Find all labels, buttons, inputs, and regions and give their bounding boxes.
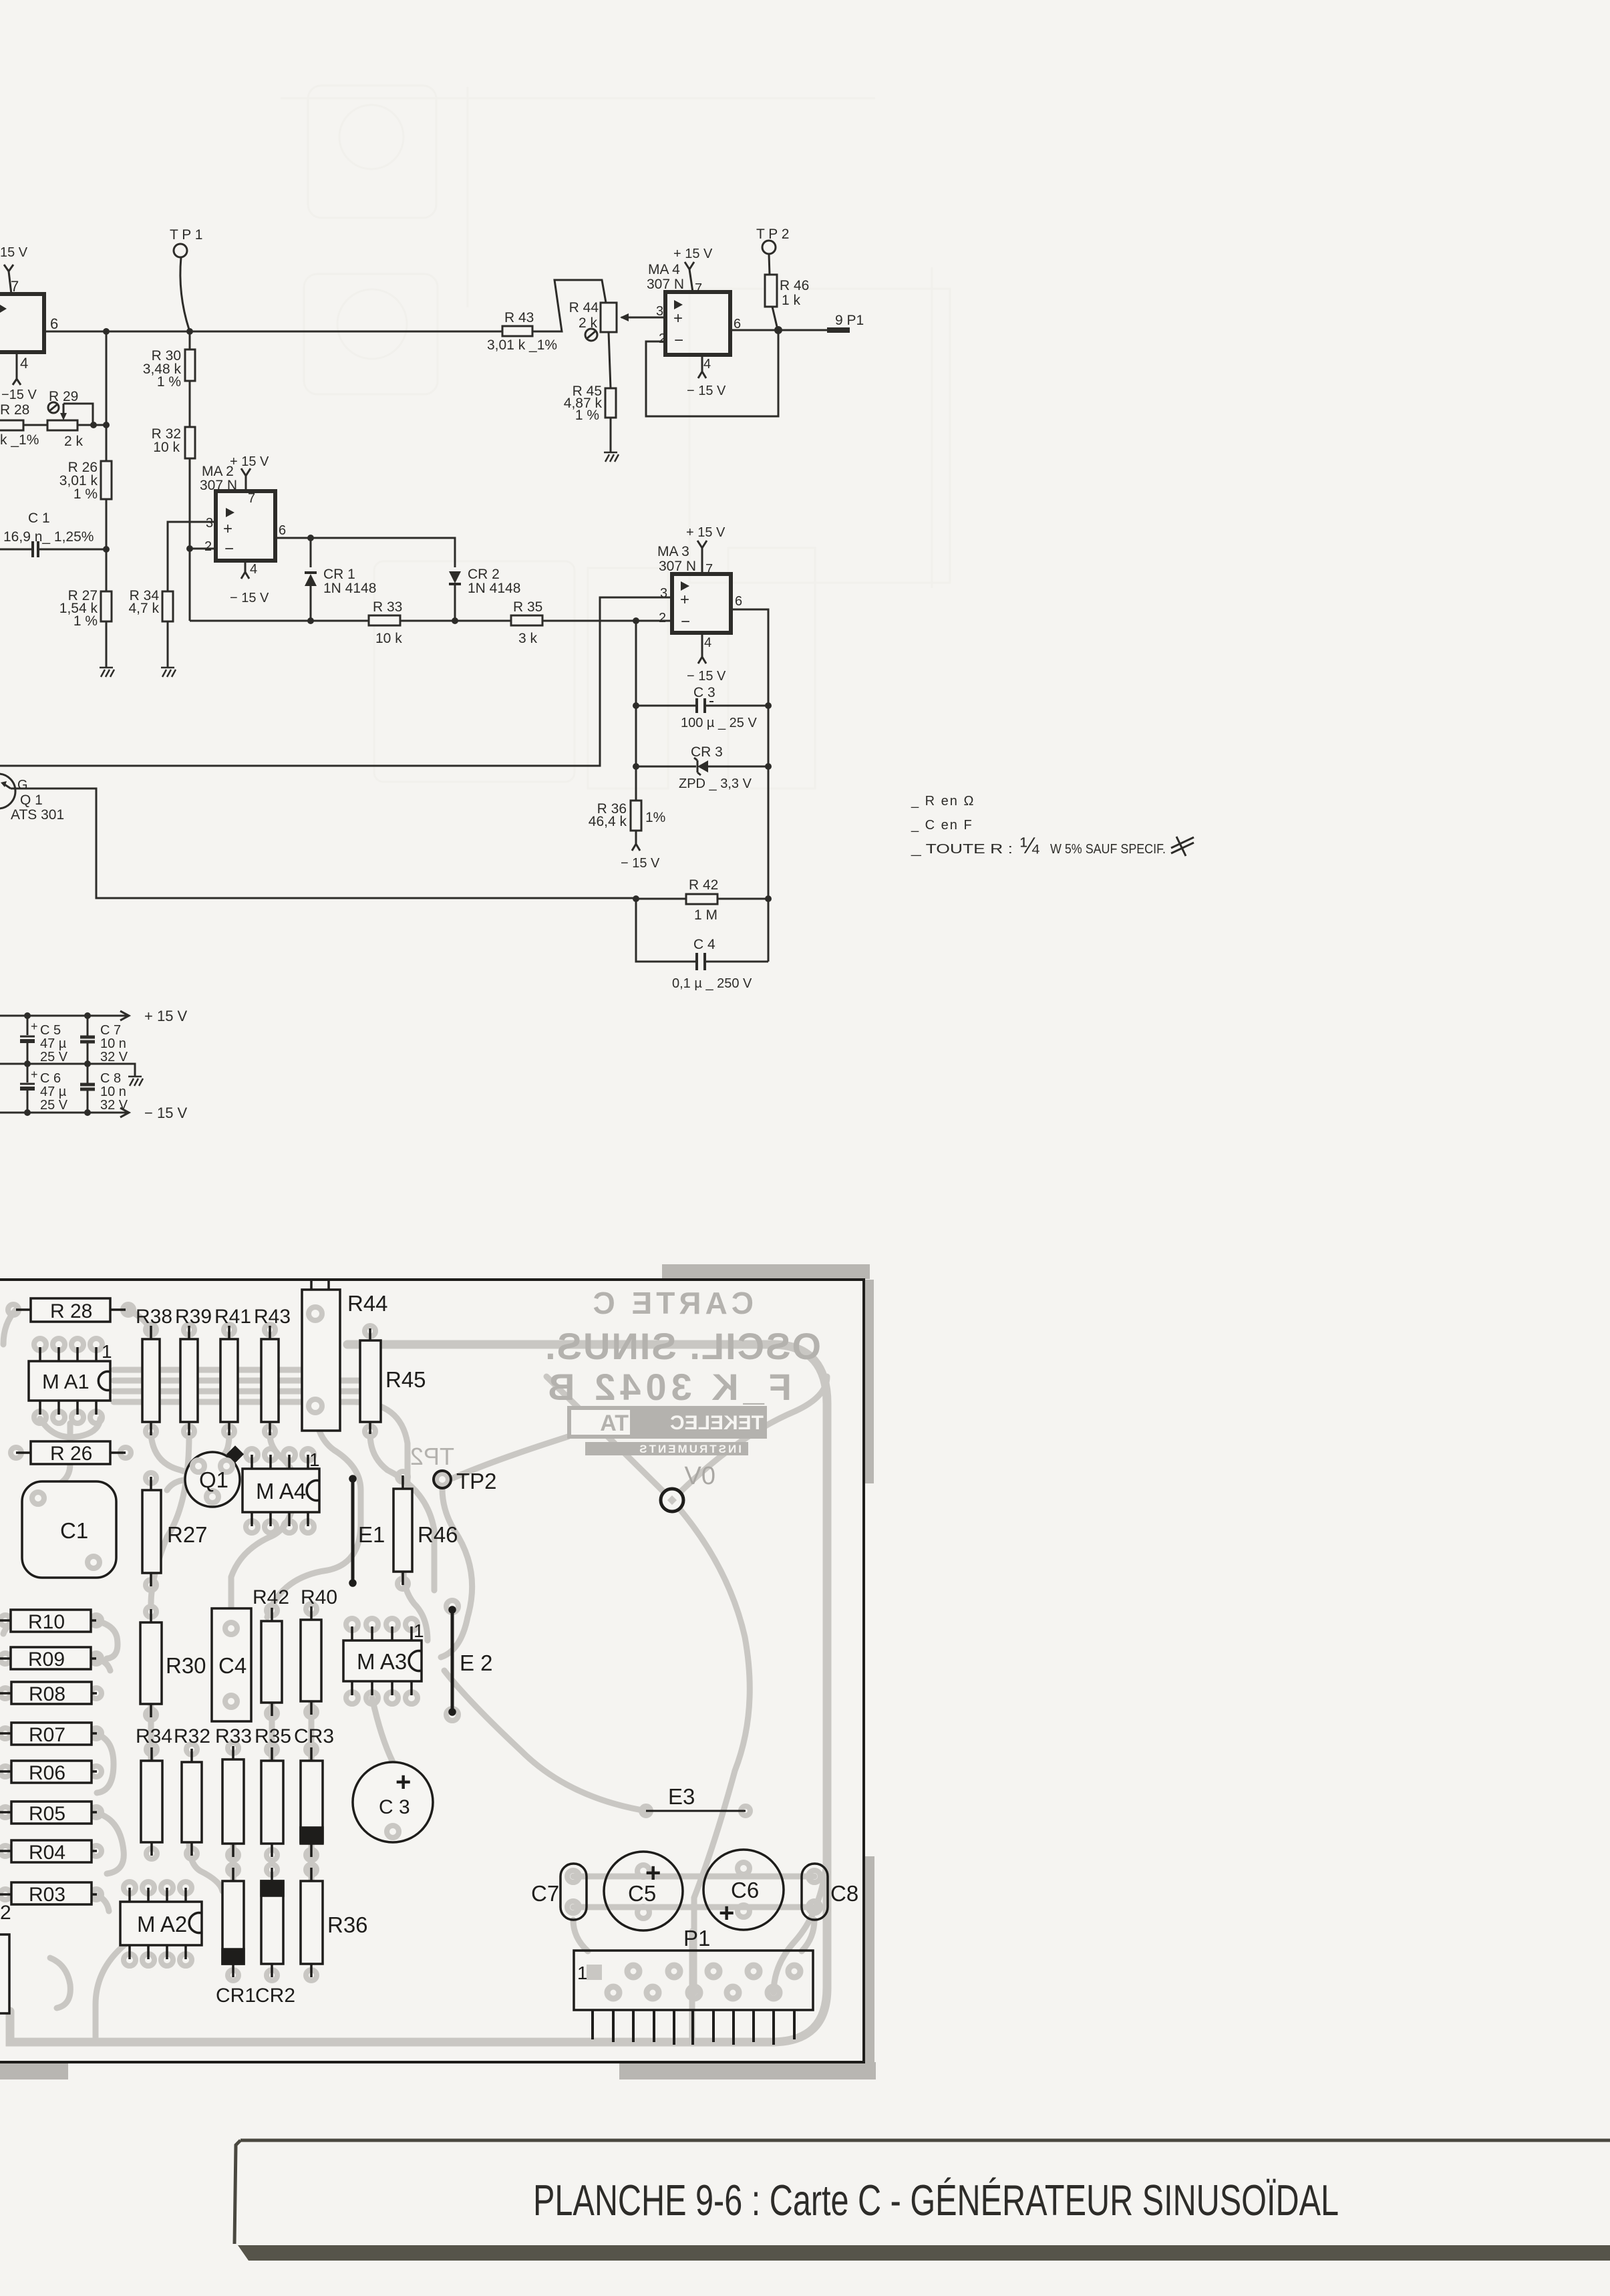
svg-text:3,01 k _1%: 3,01 k _1% — [487, 337, 557, 353]
svg-text:+ 15 V: + 15 V — [144, 1008, 188, 1024]
svg-text:10 n: 10 n — [100, 1036, 126, 1051]
svg-text:R27: R27 — [167, 1522, 208, 1547]
svg-text:R32: R32 — [174, 1725, 210, 1747]
svg-text:0V: 0V — [684, 1462, 715, 1490]
potentiometer R44 (PCB) — [302, 1280, 388, 1431]
resistor R32 — [152, 426, 195, 549]
+15V supply at MA2 pin 7 — [230, 454, 269, 491]
svg-text:− 15 V: − 15 V — [144, 1105, 188, 1121]
IC MA1 (PCB) — [29, 1341, 112, 1415]
svg-text:F_K 3042 B: F_K 3042 B — [543, 1366, 792, 1408]
svg-text:− 15 V: − 15 V — [687, 384, 726, 398]
svg-text:C 4: C 4 — [693, 937, 715, 952]
svg-text:−15 V: −15 V — [1, 388, 37, 402]
resistor R32 (PCB component) — [182, 1749, 202, 1856]
resistor R27 (PCB) — [142, 1477, 208, 1586]
svg-text:C 3: C 3 — [379, 1796, 410, 1818]
resistor R05 (PCB) — [0, 1802, 97, 1825]
power rail +15V — [0, 1008, 188, 1024]
svg-text:R 42: R 42 — [689, 877, 718, 893]
svg-text:2 k: 2 k — [579, 315, 598, 331]
svg-text:C 7: C 7 — [100, 1023, 121, 1038]
svg-text:6: 6 — [279, 523, 286, 538]
svg-text:R09: R09 — [28, 1648, 65, 1671]
svg-text:−: − — [224, 540, 234, 558]
svg-text:15 V: 15 V — [0, 245, 28, 260]
svg-text:10 k: 10 k — [375, 631, 402, 646]
resistor R30 — [143, 331, 195, 427]
svg-text:M A3: M A3 — [357, 1649, 407, 1674]
-15V supply at MA2 pin 4 — [230, 561, 269, 605]
svg-text:R38: R38 — [136, 1306, 172, 1328]
label CR1 (PCB) — [216, 1985, 256, 2007]
test point TP2 — [756, 227, 789, 275]
PCB copper traces — [3, 1310, 827, 2043]
PCB silkscreen mirrored: 0V — [684, 1462, 715, 1490]
jumper E1 (PCB) — [350, 1476, 385, 1586]
svg-text:2: 2 — [204, 539, 212, 554]
svg-text:CARTE C: CARTE C — [589, 1286, 754, 1320]
svg-text:ATS 301: ATS 301 — [11, 807, 64, 823]
jumper E3 (PCB) — [646, 1784, 746, 1811]
IC MA3 (PCB) — [343, 1620, 424, 1695]
svg-text:R10: R10 — [28, 1611, 65, 1633]
svg-text:1 M: 1 M — [694, 907, 717, 923]
svg-text:R07: R07 — [29, 1724, 65, 1746]
svg-text:R 35: R 35 — [513, 599, 542, 615]
capacitor C4 (PCB) — [212, 1608, 251, 1721]
resistor R45 — [564, 384, 616, 452]
svg-text:6: 6 — [735, 594, 742, 609]
partial component at left edge (PCB) — [0, 1902, 11, 2013]
resistor R10 (PCB) — [0, 1610, 96, 1633]
svg-text:1: 1 — [102, 1341, 112, 1362]
svg-text:R46: R46 — [418, 1522, 458, 1547]
svg-text:C 1: C 1 — [28, 511, 50, 526]
PCB silkscreen mirrored: OSCIL. SINUS. — [544, 1325, 821, 1367]
op-amp MA1 (partial, cut at left edge) — [0, 278, 58, 372]
svg-text:3: 3 — [660, 586, 667, 601]
svg-text:C 6: C 6 — [40, 1071, 61, 1086]
svg-text:1 %: 1 % — [73, 486, 98, 502]
svg-text:4: 4 — [704, 635, 711, 650]
label CR3 (PCB) — [294, 1725, 334, 1747]
resistor R30 (PCB) — [140, 1609, 206, 1717]
transistor Q1 ATS301 — [0, 774, 64, 823]
wire: x952 column below pin2 — [635, 621, 637, 801]
svg-text:C 8: C 8 — [100, 1071, 121, 1086]
notes: toute R quart W — [911, 833, 1194, 859]
diode CR3 (PCB component) — [301, 1747, 323, 1857]
svg-text:T P 1: T P 1 — [170, 227, 202, 243]
svg-text:TP2: TP2 — [456, 1469, 497, 1493]
svg-text:+: + — [223, 520, 232, 538]
svg-text:R 44: R 44 — [569, 300, 599, 315]
PCB board shadow right upper — [865, 1280, 874, 1483]
svg-text:46,4 k: 46,4 k — [589, 814, 627, 829]
+15V supply at MA4 pin 7 — [673, 247, 713, 292]
svg-text:−: − — [681, 613, 690, 631]
resistor R36 — [589, 801, 666, 844]
capacitor C1 (PCB) — [22, 1481, 116, 1578]
ground at 0V rail — [128, 1077, 143, 1086]
svg-text:_ TOUTE R :: _ TOUTE R : — [911, 842, 1013, 857]
svg-text:307 N: 307 N — [659, 559, 696, 574]
svg-text:1 %: 1 % — [575, 408, 599, 423]
svg-text:+ 15 V: + 15 V — [673, 247, 713, 261]
label R34 (PCB) — [136, 1725, 172, 1747]
title text — [533, 2176, 1339, 2225]
svg-text:100 µ _ 25 V: 100 µ _ 25 V — [681, 716, 757, 730]
svg-text:PLANCHE 9-6 : Carte C - GÉNÉRA: PLANCHE 9-6 : Carte C - GÉNÉRATEUR SINUS… — [533, 2176, 1339, 2225]
svg-text:M A4: M A4 — [256, 1479, 306, 1503]
resistor R26 (PCB) — [16, 1441, 126, 1465]
svg-text:− 15 V: − 15 V — [230, 591, 269, 605]
resistor R08 (PCB) — [0, 1682, 97, 1705]
svg-text:+: + — [680, 591, 689, 609]
PCB test pad TP2 — [434, 1469, 497, 1493]
svg-text:W 5% SAUF SPECIF.: W 5% SAUF SPECIF. — [1050, 842, 1166, 857]
svg-text:R03: R03 — [29, 1884, 65, 1906]
label CR2 (PCB) — [255, 1985, 295, 2007]
svg-text:3 k: 3 k — [518, 631, 538, 646]
svg-text:R 33: R 33 — [373, 599, 402, 615]
label R33 (PCB) — [215, 1725, 252, 1747]
svg-text:R43: R43 — [254, 1306, 291, 1328]
PCB board shadow right lower — [865, 1856, 874, 2063]
svg-text:T P 2: T P 2 — [756, 227, 789, 242]
svg-text:TP2: TP2 — [410, 1443, 454, 1470]
svg-text:2 k: 2 k — [64, 434, 84, 449]
svg-text:P1: P1 — [683, 1926, 710, 1951]
capacitor C6 (electrolytic) — [20, 1064, 68, 1113]
svg-text:R41: R41 — [214, 1306, 251, 1328]
PCB board shadow bottom left — [0, 2062, 68, 2079]
svg-text:9 P1: 9 P1 — [835, 313, 864, 328]
svg-text:1: 1 — [309, 1449, 320, 1470]
svg-text:TEKELEC: TEKELEC — [670, 1412, 764, 1434]
PCB pads (copper rings) — [0, 1304, 820, 1981]
ground under R34 — [161, 668, 176, 677]
resistor R40 (PCB component) — [301, 1606, 321, 1715]
svg-text:−: − — [674, 331, 683, 349]
title block frame — [234, 2140, 1610, 2261]
svg-text:7: 7 — [248, 491, 255, 506]
resistor R26 — [59, 460, 112, 591]
svg-text:R08: R08 — [29, 1683, 65, 1705]
svg-text:4: 4 — [703, 357, 711, 372]
svg-text:+: + — [31, 1020, 38, 1033]
svg-text:R34: R34 — [136, 1725, 172, 1747]
svg-text:R 46: R 46 — [780, 278, 809, 293]
power rail -15V — [0, 1105, 188, 1121]
svg-text:M A2: M A2 — [137, 1912, 187, 1936]
PCB silkscreen mirrored: TP2 — [410, 1443, 454, 1470]
svg-text:CR 3: CR 3 — [691, 744, 723, 760]
potentiometer R44 — [569, 300, 665, 341]
diode CR1 (PCB component) — [222, 1868, 244, 1977]
svg-text:7: 7 — [705, 562, 713, 577]
svg-text:TA: TA — [600, 1411, 629, 1436]
potentiometer R29 — [47, 389, 110, 449]
svg-text:R 29: R 29 — [49, 389, 78, 404]
capacitor C4 — [636, 899, 768, 991]
resistor R33 (PCB component) — [222, 1746, 244, 1857]
resistor R46 (PCB) — [393, 1475, 458, 1585]
IC MA2 (PCB) — [120, 1888, 202, 1959]
label R42 (PCB) — [253, 1586, 289, 1608]
resistor R09 (PCB) — [0, 1647, 96, 1671]
svg-text:R33: R33 — [215, 1725, 252, 1747]
svg-text:47 µ: 47 µ — [40, 1085, 67, 1099]
wire: MA3 output bus down right column — [731, 609, 768, 962]
svg-text:R45: R45 — [385, 1367, 426, 1392]
label R32 (PCB) — [174, 1725, 210, 1747]
svg-text:E 2: E 2 — [460, 1651, 493, 1675]
resistor R28 (cut at left edge) — [0, 402, 47, 448]
svg-text:R05: R05 — [29, 1803, 65, 1825]
svg-text:INSTRUMENTS: INSTRUMENTS — [637, 1443, 742, 1455]
svg-text:3: 3 — [656, 304, 663, 319]
svg-text:E1: E1 — [358, 1522, 385, 1547]
connector P1 (PCB) — [574, 1926, 813, 2045]
resistor R45 (PCB) — [360, 1328, 426, 1434]
resistor R35 — [511, 599, 542, 646]
svg-text:ZPD _ 3,3 V: ZPD _ 3,3 V — [679, 776, 752, 791]
svg-text:C5: C5 — [628, 1881, 656, 1906]
svg-text:R 28: R 28 — [50, 1300, 92, 1322]
svg-text:− 15 V: − 15 V — [621, 856, 660, 871]
GHOSTS — [281, 86, 950, 788]
svg-text:1: 1 — [414, 1620, 424, 1641]
svg-text:2: 2 — [659, 611, 666, 625]
svg-text:1 %: 1 % — [73, 613, 98, 629]
svg-text:R39: R39 — [175, 1306, 212, 1328]
wire: R44 bottom to R45 — [609, 332, 611, 388]
svg-text:C7: C7 — [531, 1881, 559, 1906]
wire: lower horizontal net y929 — [190, 620, 672, 622]
PCB board shadow bottom right — [619, 2062, 876, 2079]
op-amp MA2 — [200, 464, 286, 577]
PCB board shadow top — [662, 1264, 870, 1279]
svg-text:2: 2 — [659, 331, 666, 346]
svg-text:R30: R30 — [166, 1653, 206, 1678]
jumper E2 (PCB) — [450, 1607, 493, 1715]
svg-text:3: 3 — [206, 516, 213, 531]
svg-text:10 n: 10 n — [100, 1085, 126, 1099]
svg-text:+: + — [31, 1068, 38, 1081]
capacitor C3 — [633, 685, 772, 730]
svg-text:C1: C1 — [60, 1518, 88, 1543]
svg-text:_ C en F: _ C en F — [911, 818, 973, 833]
wire: 0V mid rail with ground — [0, 1060, 135, 1077]
svg-text:M A1: M A1 — [42, 1370, 90, 1393]
resistor R36 (PCB) — [301, 1868, 368, 1977]
resistor R41 (PCB) — [214, 1306, 251, 1435]
svg-text:MA 4: MA 4 — [648, 262, 680, 277]
svg-text:2: 2 — [0, 1902, 11, 1924]
-15V supply under R36 — [621, 844, 660, 871]
svg-text:1 k: 1 k — [782, 293, 801, 308]
resistor R39 (PCB) — [175, 1306, 212, 1435]
svg-text:CR3: CR3 — [294, 1725, 334, 1747]
PCB pad 0V — [661, 1489, 683, 1512]
PCB board outline — [0, 1280, 864, 2062]
notes: R en ohms — [911, 794, 975, 809]
resistor R43 (PCB) — [254, 1306, 291, 1435]
resistor R27 — [59, 588, 112, 668]
svg-text:C 3: C 3 — [693, 685, 715, 700]
svg-text:+: + — [719, 1898, 734, 1928]
capacitor C7 — [80, 1016, 128, 1064]
svg-text:Q 1: Q 1 — [20, 793, 43, 808]
svg-text:R44: R44 — [347, 1291, 388, 1316]
svg-text:MA 3: MA 3 — [657, 544, 689, 559]
svg-text:307 N: 307 N — [200, 478, 237, 493]
svg-text:+: + — [673, 309, 683, 327]
resistor R35 (PCB component) — [261, 1747, 283, 1857]
svg-text:CR 2: CR 2 — [468, 567, 500, 582]
svg-text:R06: R06 — [29, 1762, 65, 1784]
svg-text:OSCIL. SINUS.: OSCIL. SINUS. — [544, 1325, 821, 1367]
-15V supply at MA1 pin 4 — [1, 352, 37, 402]
label R40 (PCB) — [301, 1586, 337, 1608]
svg-text:− 15 V: − 15 V — [687, 669, 726, 684]
svg-text:25 V: 25 V — [40, 1098, 68, 1113]
node: MA3 pin2 junction — [633, 617, 639, 624]
capacitor C8 — [80, 1064, 128, 1113]
svg-text:CR1: CR1 — [216, 1985, 256, 2007]
svg-text:MA 2: MA 2 — [202, 464, 234, 479]
resistor R28 (PCB) — [16, 1298, 126, 1322]
svg-text:¼: ¼ — [1020, 833, 1039, 859]
svg-text:307 N: 307 N — [647, 277, 684, 292]
svg-text:E3: E3 — [668, 1784, 695, 1809]
capacitor C3 (PCB) — [353, 1762, 433, 1842]
svg-text:R 26: R 26 — [50, 1443, 92, 1465]
svg-text:CR 1: CR 1 — [323, 567, 355, 582]
svg-text:10 k: 10 k — [153, 440, 180, 455]
wire: MA4 feedback loop pin2 — [646, 330, 778, 416]
resistor R03 (PCB) — [0, 1882, 97, 1906]
svg-text:4,7 k: 4,7 k — [128, 601, 159, 616]
svg-text:0,1 µ _ 250 V: 0,1 µ _ 250 V — [672, 976, 752, 991]
svg-text:C8: C8 — [830, 1881, 858, 1906]
svg-text:32 V: 32 V — [100, 1050, 128, 1064]
PCB component outlines layer — [0, 1280, 858, 2045]
resistor R33 — [369, 599, 402, 646]
resistor R42 (PCB component) — [261, 1608, 282, 1716]
svg-text:25 V: 25 V — [40, 1050, 68, 1064]
svg-text:R 28: R 28 — [0, 402, 29, 418]
wire: MA3 pin3 long return to left edge — [0, 597, 672, 766]
PCB TEKELEC logo (mirrored) — [567, 1406, 767, 1455]
svg-text:6: 6 — [50, 315, 58, 332]
wire: MA2 pin2 to x284 column — [186, 545, 216, 621]
resistor R46 — [765, 275, 809, 329]
diode CR2 (PCB component) — [261, 1868, 283, 1977]
IC MA4 (PCB) — [243, 1449, 320, 1526]
node: junction at x284 — [186, 328, 193, 335]
+15V supply at MA1 pin 7 — [0, 245, 28, 294]
svg-text:_ R en Ω: _ R en Ω — [911, 794, 975, 809]
wire: Q1 to R42 node — [11, 788, 636, 898]
svg-text:1N 4148: 1N 4148 — [468, 581, 520, 596]
resistor R38 (PCB) — [136, 1306, 172, 1435]
capacitor C8 (PCB) — [802, 1864, 858, 1920]
svg-text:1: 1 — [577, 1963, 588, 1983]
svg-text:+: + — [395, 1767, 411, 1797]
svg-text:1N 4148: 1N 4148 — [323, 581, 376, 596]
wire: MA1 pin6 output bus to R43 — [44, 331, 502, 333]
wire: MA2 pin3 to R34 — [168, 522, 216, 591]
svg-text:R04: R04 — [29, 1842, 65, 1864]
PCB silkscreen mirrored: F-K 3042 B — [543, 1366, 792, 1408]
ground under R45 — [604, 452, 619, 462]
svg-text:4: 4 — [250, 562, 257, 577]
zener diode CR3 — [633, 744, 772, 791]
svg-text:4: 4 — [20, 355, 28, 372]
wire: MA4 output to 9P1 — [730, 313, 864, 334]
svg-text:1 %: 1 % — [157, 374, 181, 390]
capacitor C7 (PCB) — [531, 1864, 587, 1920]
resistor R42 — [633, 877, 772, 923]
PCB silkscreen mirrored: CARTE C — [589, 1286, 754, 1320]
wire: MA2 pin6 output to CR1/CR2 — [275, 535, 455, 567]
svg-text:R36: R36 — [327, 1912, 368, 1937]
svg-text:16,9 n_ 1,25%: 16,9 n_ 1,25% — [3, 529, 94, 545]
resistor R06 (PCB) — [0, 1761, 97, 1784]
svg-text:G: G — [17, 778, 28, 793]
resistor R34 (PCB component) — [141, 1747, 162, 1856]
resistor R34 — [128, 588, 173, 668]
svg-text:+ 15 V: + 15 V — [230, 454, 269, 469]
svg-text:R40: R40 — [301, 1586, 337, 1608]
svg-text:Q1: Q1 — [199, 1467, 228, 1492]
capacitor C5 (PCB) — [604, 1852, 683, 1930]
node: junction at x159 — [103, 328, 110, 335]
resistor R07 (PCB) — [0, 1723, 97, 1746]
svg-text:R 43: R 43 — [504, 310, 534, 325]
TITLE — [234, 2140, 1610, 2261]
ground under R27 — [100, 668, 114, 677]
diode CR1 — [305, 567, 376, 624]
svg-text:C 5: C 5 — [40, 1023, 61, 1038]
-15V supply at MA4 pin 4 — [687, 355, 726, 398]
notes: C en F — [911, 818, 973, 833]
resistor R43 — [487, 310, 557, 353]
op-amp MA3 — [657, 544, 742, 650]
-15V supply at MA3 pin 4 — [687, 633, 726, 684]
diode CR2 — [449, 567, 520, 624]
wire: R43 to R44 jog — [532, 280, 606, 331]
wire: x159 column — [106, 331, 108, 461]
capacitor C1 — [0, 511, 110, 557]
label R35 (PCB) — [255, 1725, 291, 1747]
op-amp MA4 — [647, 262, 741, 372]
svg-text:C6: C6 — [731, 1878, 759, 1902]
svg-text:CR2: CR2 — [255, 1985, 295, 2007]
svg-text:47 µ: 47 µ — [40, 1036, 67, 1051]
+15V supply at MA3 pin 7 — [686, 525, 726, 574]
svg-text:C4: C4 — [218, 1653, 247, 1678]
svg-text:R42: R42 — [253, 1586, 289, 1608]
svg-text:+ 15 V: + 15 V — [686, 525, 726, 540]
resistor R04 (PCB) — [0, 1840, 97, 1864]
PCB — [0, 1264, 876, 2079]
capacitor C5 (electrolytic) — [20, 1016, 68, 1064]
svg-text:k _1%: k _1% — [0, 432, 39, 448]
